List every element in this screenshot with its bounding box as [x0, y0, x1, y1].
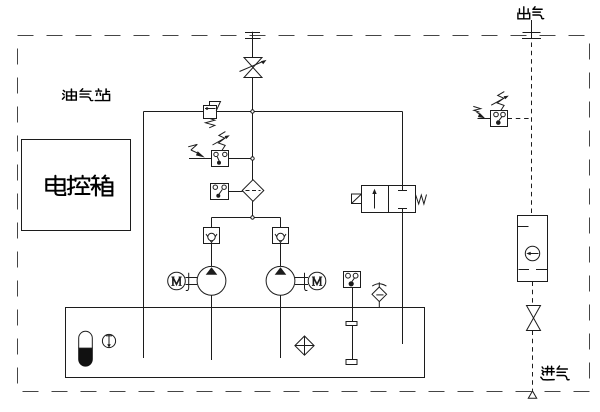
- label 进气: [541, 366, 569, 380]
- pressure regulator PS3: [473, 92, 531, 127]
- electric control box: [22, 140, 131, 231]
- directional valve DV1: [352, 186, 427, 213]
- flow unit FRL: [518, 216, 548, 282]
- wire: valve V1 to main node: [252, 78, 254, 112]
- label 电控箱: [46, 176, 112, 196]
- node J1: [251, 110, 254, 113]
- inlet valve V2: [527, 306, 541, 331]
- air outlet marker: [522, 20, 541, 39]
- wire: outlet dashed line: [531, 43, 533, 216]
- wire: main horizontal line: [144, 111, 403, 113]
- accumulator (oil level gauge): [79, 331, 93, 366]
- air inlet triangle: [528, 391, 536, 398]
- heater: [295, 336, 314, 355]
- wire: dashed to inlet point: [532, 331, 534, 391]
- check valve CV1: [204, 228, 220, 267]
- motor M2: [295, 272, 326, 290]
- pressure switch PS1: [188, 132, 252, 167]
- pump P2: [266, 266, 295, 358]
- wire: manifold: [212, 217, 281, 219]
- wire: valve return to tank: [402, 213, 404, 345]
- vent marker (top, to atmosphere): [245, 32, 261, 58]
- wire: filter to manifold: [252, 201, 254, 217]
- wire: left riser to tank: [143, 112, 145, 359]
- check valve CV2: [273, 228, 289, 267]
- node J2: [251, 157, 254, 160]
- breather (air filter): [372, 282, 387, 307]
- filter F1: [242, 180, 264, 202]
- node J3: [251, 216, 254, 219]
- pump P1: [197, 266, 226, 360]
- wire: dashed to inlet valve: [532, 282, 534, 306]
- pressure switch PS2: [211, 184, 243, 200]
- label 油气站: [62, 89, 109, 101]
- wire: to directional valve: [402, 112, 404, 191]
- tank T1: [66, 308, 425, 378]
- wire: main vertical line: [252, 112, 254, 181]
- level gauge marks: [346, 322, 357, 365]
- thermometer: [102, 334, 115, 347]
- label 出气: [518, 7, 544, 19]
- relief valve RV1: [204, 102, 221, 128]
- throttle valve V1: [240, 58, 267, 78]
- level switch PS4: [344, 272, 361, 366]
- motor M1: [168, 272, 197, 290]
